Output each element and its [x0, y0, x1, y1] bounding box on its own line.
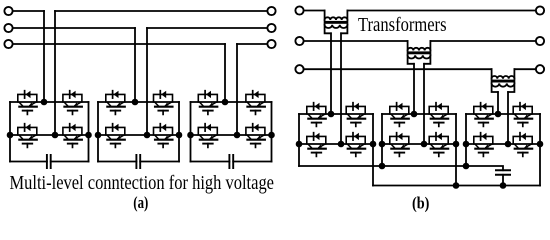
transistor Q64 (IGBT with antiparallel diode, cell 6 lower-right) [513, 133, 532, 157]
wire: cell 6 mid rail [466, 143, 540, 145]
wire: cell 4 right DC rail [372, 114, 374, 144]
wire: (b) phase line 3 from left terminal to TR3 primary [304, 68, 492, 70]
wire: cell 2 top rail [98, 101, 179, 103]
capacitor C2 (cell 2 DC-link) [136, 155, 140, 168]
wire: cell 2 bottom rail right of capacitor [140, 161, 179, 163]
junction: cell 5 mid rail to right DC rail [453, 141, 460, 148]
wire: riser from cell 1 AC output to phase line 1 [54, 11, 56, 135]
junction: cell 1 mid rail to right DC rail [85, 132, 92, 139]
junction: cell 6 mid rail to left DC rail [463, 141, 470, 148]
wire: TR1 secondary left lead down to cell 4 AC input [330, 33, 332, 114]
svg-text:Multi-level conntection for hi: Multi-level conntection for high voltage [10, 172, 275, 194]
junction: cell 4 AC output node on mid rail [338, 141, 345, 148]
junction: cell 5 AC input node on top rail [411, 111, 418, 118]
terminal: figure (b) right phase terminal 2 [536, 37, 544, 45]
capacitor C4 (shared DC-link of figure (b)) [496, 170, 510, 175]
transistor Q34 (IGBT with antiparallel diode, cell 3 lower-right) [246, 124, 265, 148]
transistor Q54 (IGBT with antiparallel diode, cell 5 lower-right) [429, 133, 448, 157]
transistor Q41 (IGBT with antiparallel diode, cell 4 upper-left) [307, 103, 326, 127]
wire: (a) phase line 1 left segment [13, 10, 44, 12]
wire: positive DC bus to capacitor C4 top plate [299, 166, 503, 170]
wire: cell 5 right DC rail [455, 114, 457, 144]
wire: cell 1 mid rail [10, 134, 89, 136]
wire: cell 4 left DC rail [298, 114, 300, 144]
wire: riser from cell 3 AC output to phase line 3 [236, 44, 238, 135]
wire: (a) phase line 2 right segment [147, 27, 267, 29]
transistor Q24 (IGBT with antiparallel diode, cell 2 lower-right) [154, 124, 173, 148]
junction: cell 5 mid rail to left DC rail [379, 141, 386, 148]
junction: cell 4 mid rail to right DC rail [370, 141, 377, 148]
wire: cell 1 right DC rail [88, 102, 90, 162]
transistor Q52 (IGBT with antiparallel diode, cell 5 upper-right) [429, 103, 448, 127]
wire: cell 1 left DC rail [9, 102, 11, 162]
junction: cell 2 AC input node on top rail [132, 99, 139, 106]
junction: cell 6 left rail on positive DC bus [463, 163, 470, 170]
junction: cell 3 AC input node on top rail [222, 99, 229, 106]
transistor Q31 (IGBT with antiparallel diode, cell 3 upper-left) [198, 91, 217, 115]
junction: cell 3 mid rail to right DC rail [268, 132, 275, 139]
wire: (a) phase line 3 right segment [237, 43, 267, 45]
junction: cell 1 AC output node on mid rail [52, 132, 59, 139]
wire: TR3 secondary right lead down to cell 6 AC output [507, 92, 509, 144]
terminal: figure (a) right phase terminal 1 [267, 7, 275, 15]
junction: cell 4 mid rail to left DC rail [296, 141, 303, 148]
wire: cell 6 right rail extension to negative DC bus [539, 144, 541, 186]
transistor Q62 (IGBT with antiparallel diode, cell 6 upper-right) [513, 103, 532, 127]
terminal: figure (a) left phase terminal 3 [4, 40, 12, 48]
junction: cell 5 AC output node on mid rail [421, 141, 428, 148]
transistor Q63 (IGBT with antiparallel diode, cell 6 lower-left) [474, 133, 493, 157]
wire: cell 5 top rail [382, 113, 456, 115]
wire: cell 1 top rail [10, 101, 89, 103]
junction: cell 6 AC input node on top rail [495, 111, 502, 118]
wire: cell 2 left DC rail [97, 102, 99, 162]
transistor Q44 (IGBT with antiparallel diode, cell 4 lower-right) [346, 133, 365, 157]
transistor Q23 (IGBT with antiparallel diode, cell 2 lower-left) [106, 124, 125, 148]
wire: TR1 secondary right lead down to cell 4 AC output [340, 33, 342, 144]
wire: cell 3 bottom rail right of capacitor [233, 161, 271, 163]
junction: cell 5 left rail on positive DC bus [379, 163, 386, 170]
junction: capacitor C4 on negative DC bus [500, 182, 507, 189]
wire: cell 1 bottom rail right of capacitor [51, 161, 89, 163]
terminal: figure (a) left phase terminal 2 [4, 24, 12, 32]
wire: cell 1 bottom rail left of capacitor [10, 161, 47, 163]
wire: TR3 secondary left lead down to cell 6 AC input [497, 92, 499, 114]
wire: drop from phase line 2 to cell 2 AC input [134, 28, 136, 102]
wire: drop from phase line 3 to cell 3 AC input [224, 44, 226, 102]
terminal: figure (b) left phase terminal 2 [295, 37, 303, 45]
terminal: figure (b) left phase terminal 1 [295, 6, 303, 14]
wire: riser from cell 2 AC output to phase line 2 [146, 28, 148, 135]
wire: (b) phase line 1 from left terminal to TR1 primary [304, 10, 325, 12]
wire: cell 5 mid rail [382, 143, 456, 145]
wire: cell 2 right DC rail [178, 102, 180, 162]
transistor Q22 (IGBT with antiparallel diode, cell 2 upper-right) [154, 91, 173, 115]
wire: cell 4 top rail [299, 113, 373, 115]
transistor Q42 (IGBT with antiparallel diode, cell 4 upper-right) [346, 103, 365, 127]
transistor Q61 (IGBT with antiparallel diode, cell 6 upper-left) [474, 103, 493, 127]
transistor Q13 (IGBT with antiparallel diode, cell 1 lower-left) [18, 124, 37, 148]
junction: cell 6 mid rail to right DC rail [537, 141, 544, 148]
junction: cell 2 mid rail to right DC rail [176, 132, 183, 139]
wire: cell 3 right DC rail [271, 102, 273, 162]
wire: cell 4 right rail extension to negative DC bus [372, 144, 374, 186]
terminal: figure (a) right phase terminal 2 [267, 24, 275, 32]
wire: (b) phase line 2 from TR2 primary to right terminal [430, 40, 535, 42]
wire: (a) phase line 1 right segment [55, 10, 267, 12]
transformer TR3 [491, 69, 516, 92]
junction: cell 3 mid rail to left DC rail [187, 132, 194, 139]
svg-text:(a): (a) [133, 193, 148, 212]
wire: cell 6 top rail [466, 113, 540, 115]
wire: cell 2 bottom rail left of capacitor [98, 161, 136, 163]
wire: negative DC bus [373, 185, 540, 187]
transistor Q43 (IGBT with antiparallel diode, cell 4 lower-left) [307, 133, 326, 157]
junction: cell 5 right rail on negative DC bus [453, 182, 460, 189]
wire: (a) phase line 2 left segment [13, 27, 135, 29]
junction: cell 3 AC output node on mid rail [234, 132, 241, 139]
wire: cell 4 mid rail [299, 143, 373, 145]
terminal: figure (b) right phase terminal 1 [536, 6, 544, 14]
transistor Q32 (IGBT with antiparallel diode, cell 3 upper-right) [246, 91, 265, 115]
wire: (b) phase line 2 from left terminal to TR2 primary [304, 40, 408, 42]
transistor Q33 (IGBT with antiparallel diode, cell 3 lower-left) [198, 124, 217, 148]
terminal: figure (a) right phase terminal 3 [267, 40, 275, 48]
terminal: figure (b) left phase terminal 3 [295, 65, 303, 73]
capacitor C3 (cell 3 DC-link) [229, 155, 233, 168]
wire: cell 3 bottom rail left of capacitor [191, 161, 230, 163]
transformer TR2 [407, 41, 432, 64]
wire: cell 6 left DC rail [465, 114, 467, 144]
wire: cell 3 left DC rail [190, 102, 192, 162]
wire: cell 2 mid rail [98, 134, 179, 136]
wire: cell 5 left rail extension to positive DC bus [381, 144, 383, 166]
wire: (b) phase line 3 from TR3 primary to right terminal [514, 68, 535, 70]
wire: cell 5 left DC rail [381, 114, 383, 144]
wire: (b) phase line 1 from TR1 primary to right terminal [347, 10, 535, 12]
transformer TR1 [324, 11, 349, 34]
terminal: figure (a) left phase terminal 1 [4, 7, 12, 15]
junction: cell 1 mid rail to left DC rail [7, 132, 14, 139]
transistor Q12 (IGBT with antiparallel diode, cell 1 upper-right) [63, 91, 82, 115]
wire: TR2 secondary right lead down to cell 5 AC output [423, 64, 425, 144]
wire: cell 3 mid rail [191, 134, 272, 136]
junction: cell 2 AC output node on mid rail [144, 132, 151, 139]
wire: (a) phase line 3 left segment [13, 43, 225, 45]
wire: cell 5 right rail extension to negative DC bus [455, 144, 457, 186]
wire: cell 4 left rail extension to positive DC bus [298, 144, 300, 166]
transistor Q21 (IGBT with antiparallel diode, cell 2 upper-left) [106, 91, 125, 115]
wire: cell 6 left rail extension to positive DC bus [465, 144, 467, 166]
junction: cell 1 AC input node on top rail [41, 99, 48, 106]
junction: cell 2 mid rail to left DC rail [95, 132, 102, 139]
transistor Q11 (IGBT with antiparallel diode, cell 1 upper-left) [18, 91, 37, 115]
wire: drop from phase line 1 to cell 1 AC input [43, 11, 45, 102]
wire: cell 6 right DC rail [539, 114, 541, 144]
wire: cell 3 top rail [191, 101, 272, 103]
junction: cell 4 AC input node on top rail [328, 111, 335, 118]
svg-text:(b): (b) [412, 193, 429, 212]
junction: cell 6 AC output node on mid rail [505, 141, 512, 148]
terminal: figure (b) right phase terminal 3 [536, 65, 544, 73]
transistor Q53 (IGBT with antiparallel diode, cell 5 lower-left) [390, 133, 409, 157]
wire: TR2 secondary left lead down to cell 5 AC input [413, 64, 415, 114]
transistor Q14 (IGBT with antiparallel diode, cell 1 lower-right) [63, 124, 82, 148]
svg-text:Transformers: Transformers [358, 14, 447, 36]
wire: capacitor C4 bottom plate lead to negative DC bus [502, 175, 504, 186]
transistor Q51 (IGBT with antiparallel diode, cell 5 upper-left) [390, 103, 409, 127]
capacitor C1 (cell 1 DC-link) [47, 155, 51, 168]
